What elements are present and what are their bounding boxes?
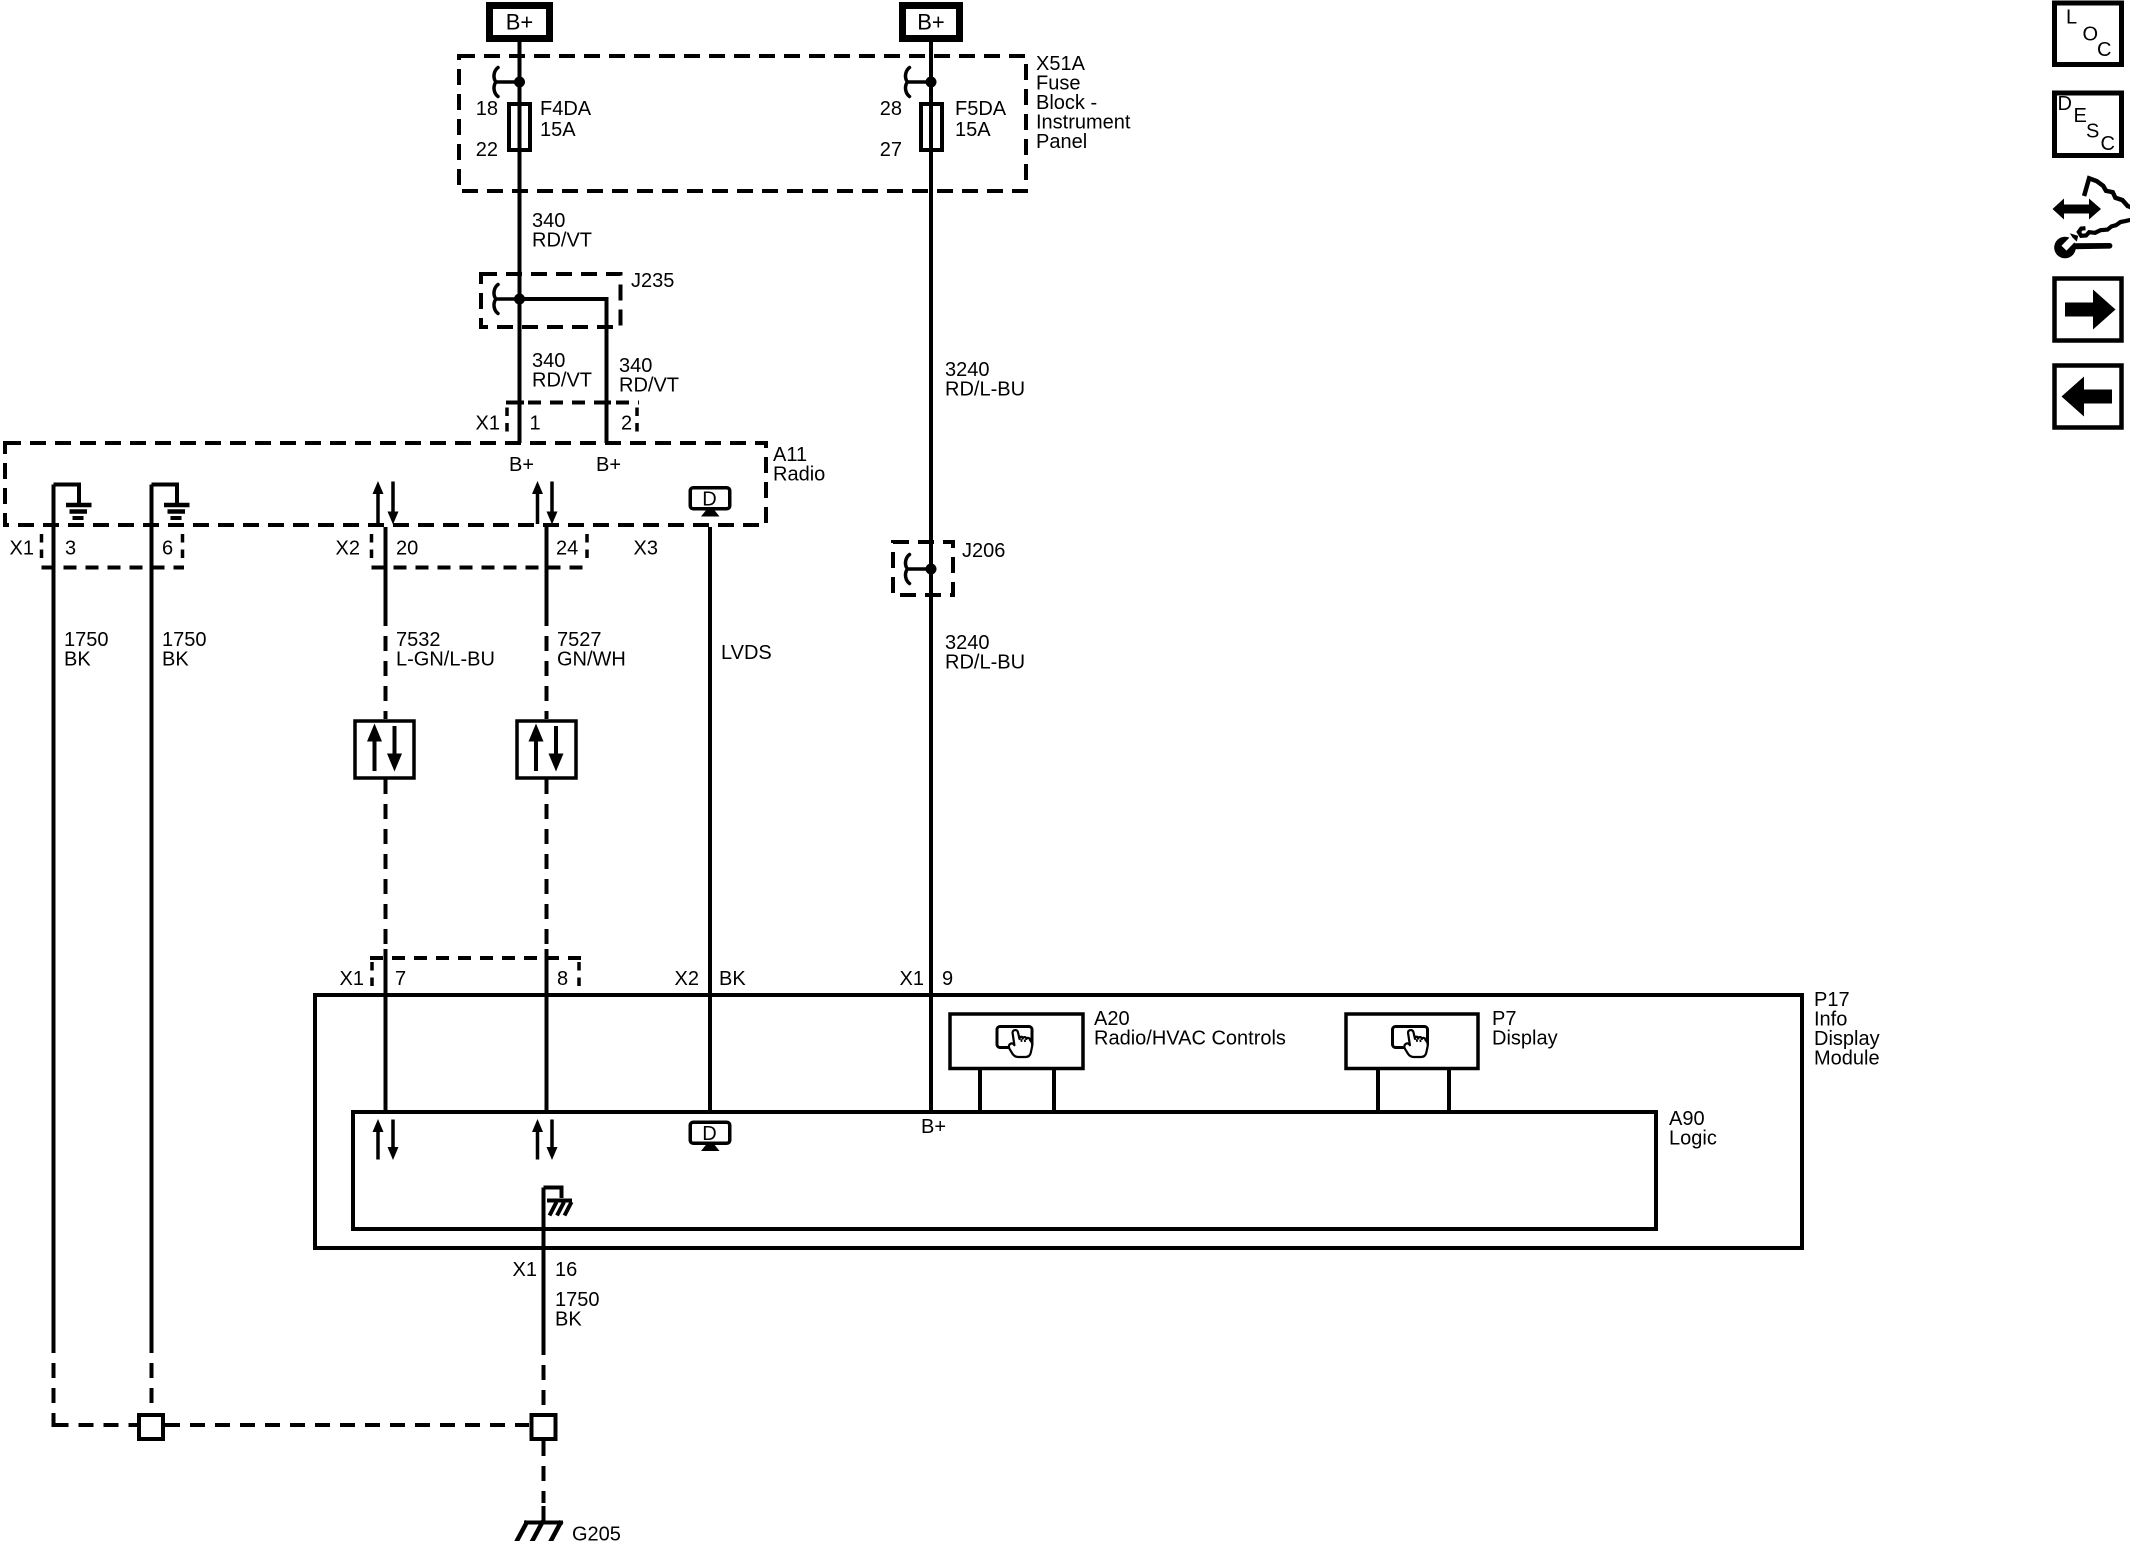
svg-text:18: 18 (476, 98, 498, 120)
svg-text:22: 22 (476, 139, 498, 161)
svg-text:GN/WH: GN/WH (557, 648, 626, 670)
svg-text:B+: B+ (506, 10, 534, 35)
svg-text:1: 1 (530, 412, 541, 434)
svg-text:27: 27 (880, 139, 902, 161)
svg-text:15A: 15A (955, 119, 991, 141)
svg-text:F5DA: F5DA (955, 98, 1007, 120)
svg-text:8: 8 (557, 968, 568, 990)
svg-text:Panel: Panel (1036, 131, 1087, 153)
svg-text:D: D (2058, 93, 2072, 115)
svg-text:RD/L-BU: RD/L-BU (945, 378, 1025, 400)
svg-text:BK: BK (64, 648, 91, 670)
svg-text:B+: B+ (921, 1116, 946, 1138)
svg-text:X2: X2 (675, 968, 699, 990)
svg-text:RD/VT: RD/VT (532, 229, 592, 251)
svg-text:J206: J206 (962, 540, 1005, 562)
svg-text:X1: X1 (340, 968, 364, 990)
svg-text:3: 3 (65, 538, 76, 560)
svg-text:Display: Display (1492, 1027, 1558, 1049)
svg-text:O: O (2083, 24, 2099, 46)
svg-text:B+: B+ (917, 10, 945, 35)
svg-text:D: D (702, 1123, 716, 1145)
svg-text:7: 7 (395, 968, 406, 990)
svg-text:X1: X1 (476, 412, 500, 434)
svg-text:28: 28 (880, 98, 902, 120)
svg-text:B+: B+ (509, 454, 534, 476)
svg-text:L-GN/L-BU: L-GN/L-BU (396, 648, 495, 670)
svg-text:C: C (2101, 133, 2115, 155)
svg-text:BK: BK (162, 648, 189, 670)
svg-text:Logic: Logic (1669, 1127, 1717, 1149)
svg-text:16: 16 (555, 1259, 577, 1281)
svg-text:BK: BK (555, 1308, 582, 1330)
svg-text:S: S (2086, 121, 2099, 143)
svg-text:X1: X1 (513, 1259, 537, 1281)
svg-text:RD/L-BU: RD/L-BU (945, 651, 1025, 673)
svg-text:B+: B+ (596, 454, 621, 476)
svg-text:G205: G205 (572, 1524, 621, 1541)
svg-text:9: 9 (942, 968, 953, 990)
svg-text:X1: X1 (900, 968, 924, 990)
svg-text:D: D (702, 488, 716, 510)
svg-text:Radio: Radio (773, 463, 825, 485)
svg-text:6: 6 (162, 538, 173, 560)
svg-text:Module: Module (1814, 1047, 1880, 1069)
svg-text:X1: X1 (10, 538, 34, 560)
svg-text:20: 20 (396, 538, 418, 560)
svg-text:RD/VT: RD/VT (532, 369, 592, 391)
svg-text:J235: J235 (631, 270, 674, 292)
svg-text:2: 2 (621, 412, 632, 434)
svg-text:BK: BK (719, 968, 746, 990)
svg-text:C: C (2097, 39, 2111, 61)
svg-text:F4DA: F4DA (540, 98, 592, 120)
svg-text:L: L (2066, 7, 2077, 29)
svg-text:X3: X3 (634, 538, 658, 560)
svg-text:24: 24 (556, 538, 578, 560)
svg-text:RD/VT: RD/VT (619, 374, 679, 396)
svg-text:LVDS: LVDS (721, 642, 772, 664)
svg-text:E: E (2074, 105, 2087, 127)
svg-text:Radio/HVAC Controls: Radio/HVAC Controls (1094, 1027, 1286, 1049)
svg-text:15A: 15A (540, 119, 576, 141)
svg-text:X2: X2 (336, 538, 360, 560)
